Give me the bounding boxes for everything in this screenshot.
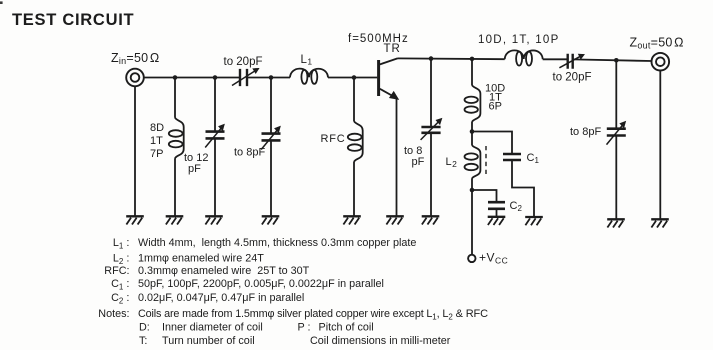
svg-text:Coil dimensions in milli-meter: Coil dimensions in milli-meter [310, 335, 451, 347]
svg-text:Turn number of coil: Turn number of coil [162, 335, 255, 347]
svg-text:1T: 1T [150, 135, 163, 147]
svg-text:pF: pF [412, 156, 425, 168]
svg-text:Notes:: Notes: [98, 308, 129, 320]
svg-text:0.3mmφ enameled wire 25T to 3: 0.3mmφ enameled wire 25T to 30T [138, 265, 310, 277]
svg-text:50pF, 100pF, 2200pF, 0.005μF,: 50pF, 100pF, 2200pF, 0.005μF, 0.0022μF i… [138, 278, 384, 290]
svg-text:L2 :: L2 : [113, 253, 130, 266]
svg-text:7P: 7P [150, 148, 163, 160]
svg-text:TR: TR [384, 43, 401, 55]
svg-text:T:: T: [139, 335, 147, 347]
svg-text:Coils are made from 1.5mmφ sil: Coils are made from 1.5mmφ silver plated… [138, 308, 488, 321]
svg-text:to 8pF: to 8pF [570, 126, 601, 138]
svg-text:P :: P : [298, 322, 311, 334]
svg-text:pF: pF [188, 163, 201, 175]
svg-text:C2 :: C2 : [111, 292, 129, 305]
svg-text:C1: C1 [527, 152, 540, 165]
svg-text:C1 :: C1 : [111, 278, 129, 291]
svg-text:RFC: RFC [321, 133, 346, 145]
svg-text:to 8pF: to 8pF [234, 147, 265, 159]
svg-text:Width 4mm, length 4.5mm, thic: Width 4mm, length 4.5mm, thickness 0.3mm… [138, 237, 416, 249]
svg-text:10D, 1T, 10P: 10D, 1T, 10P [478, 34, 559, 46]
svg-text:RFC:: RFC: [104, 265, 129, 277]
svg-text:L1 :: L1 : [113, 237, 130, 250]
svg-text:8D: 8D [150, 122, 164, 134]
svg-text:L2: L2 [446, 156, 458, 169]
svg-text:0.02μF, 0.047μF, 0.47μF in par: 0.02μF, 0.047μF, 0.47μF in parallel [138, 292, 304, 304]
svg-text:Zin=50Ω: Zin=50Ω [111, 51, 159, 66]
svg-text:L1: L1 [301, 54, 313, 67]
svg-text:D:: D: [139, 322, 150, 334]
svg-text:+VCC: +VCC [479, 251, 508, 266]
svg-text:C2: C2 [510, 200, 523, 213]
svg-text:to 20pF: to 20pF [224, 56, 263, 68]
svg-text:Inner diameter of coil: Inner diameter of coil [162, 322, 263, 334]
svg-text:to 20pF: to 20pF [553, 72, 592, 84]
svg-text:Zout=50Ω: Zout=50Ω [630, 36, 684, 51]
svg-text:TEST CIRCUIT: TEST CIRCUIT [12, 11, 134, 29]
svg-text:6P: 6P [489, 101, 502, 113]
svg-text:Pitch of coil: Pitch of coil [319, 322, 374, 334]
svg-text:1mmφ enameled wire 24T: 1mmφ enameled wire 24T [138, 253, 264, 265]
